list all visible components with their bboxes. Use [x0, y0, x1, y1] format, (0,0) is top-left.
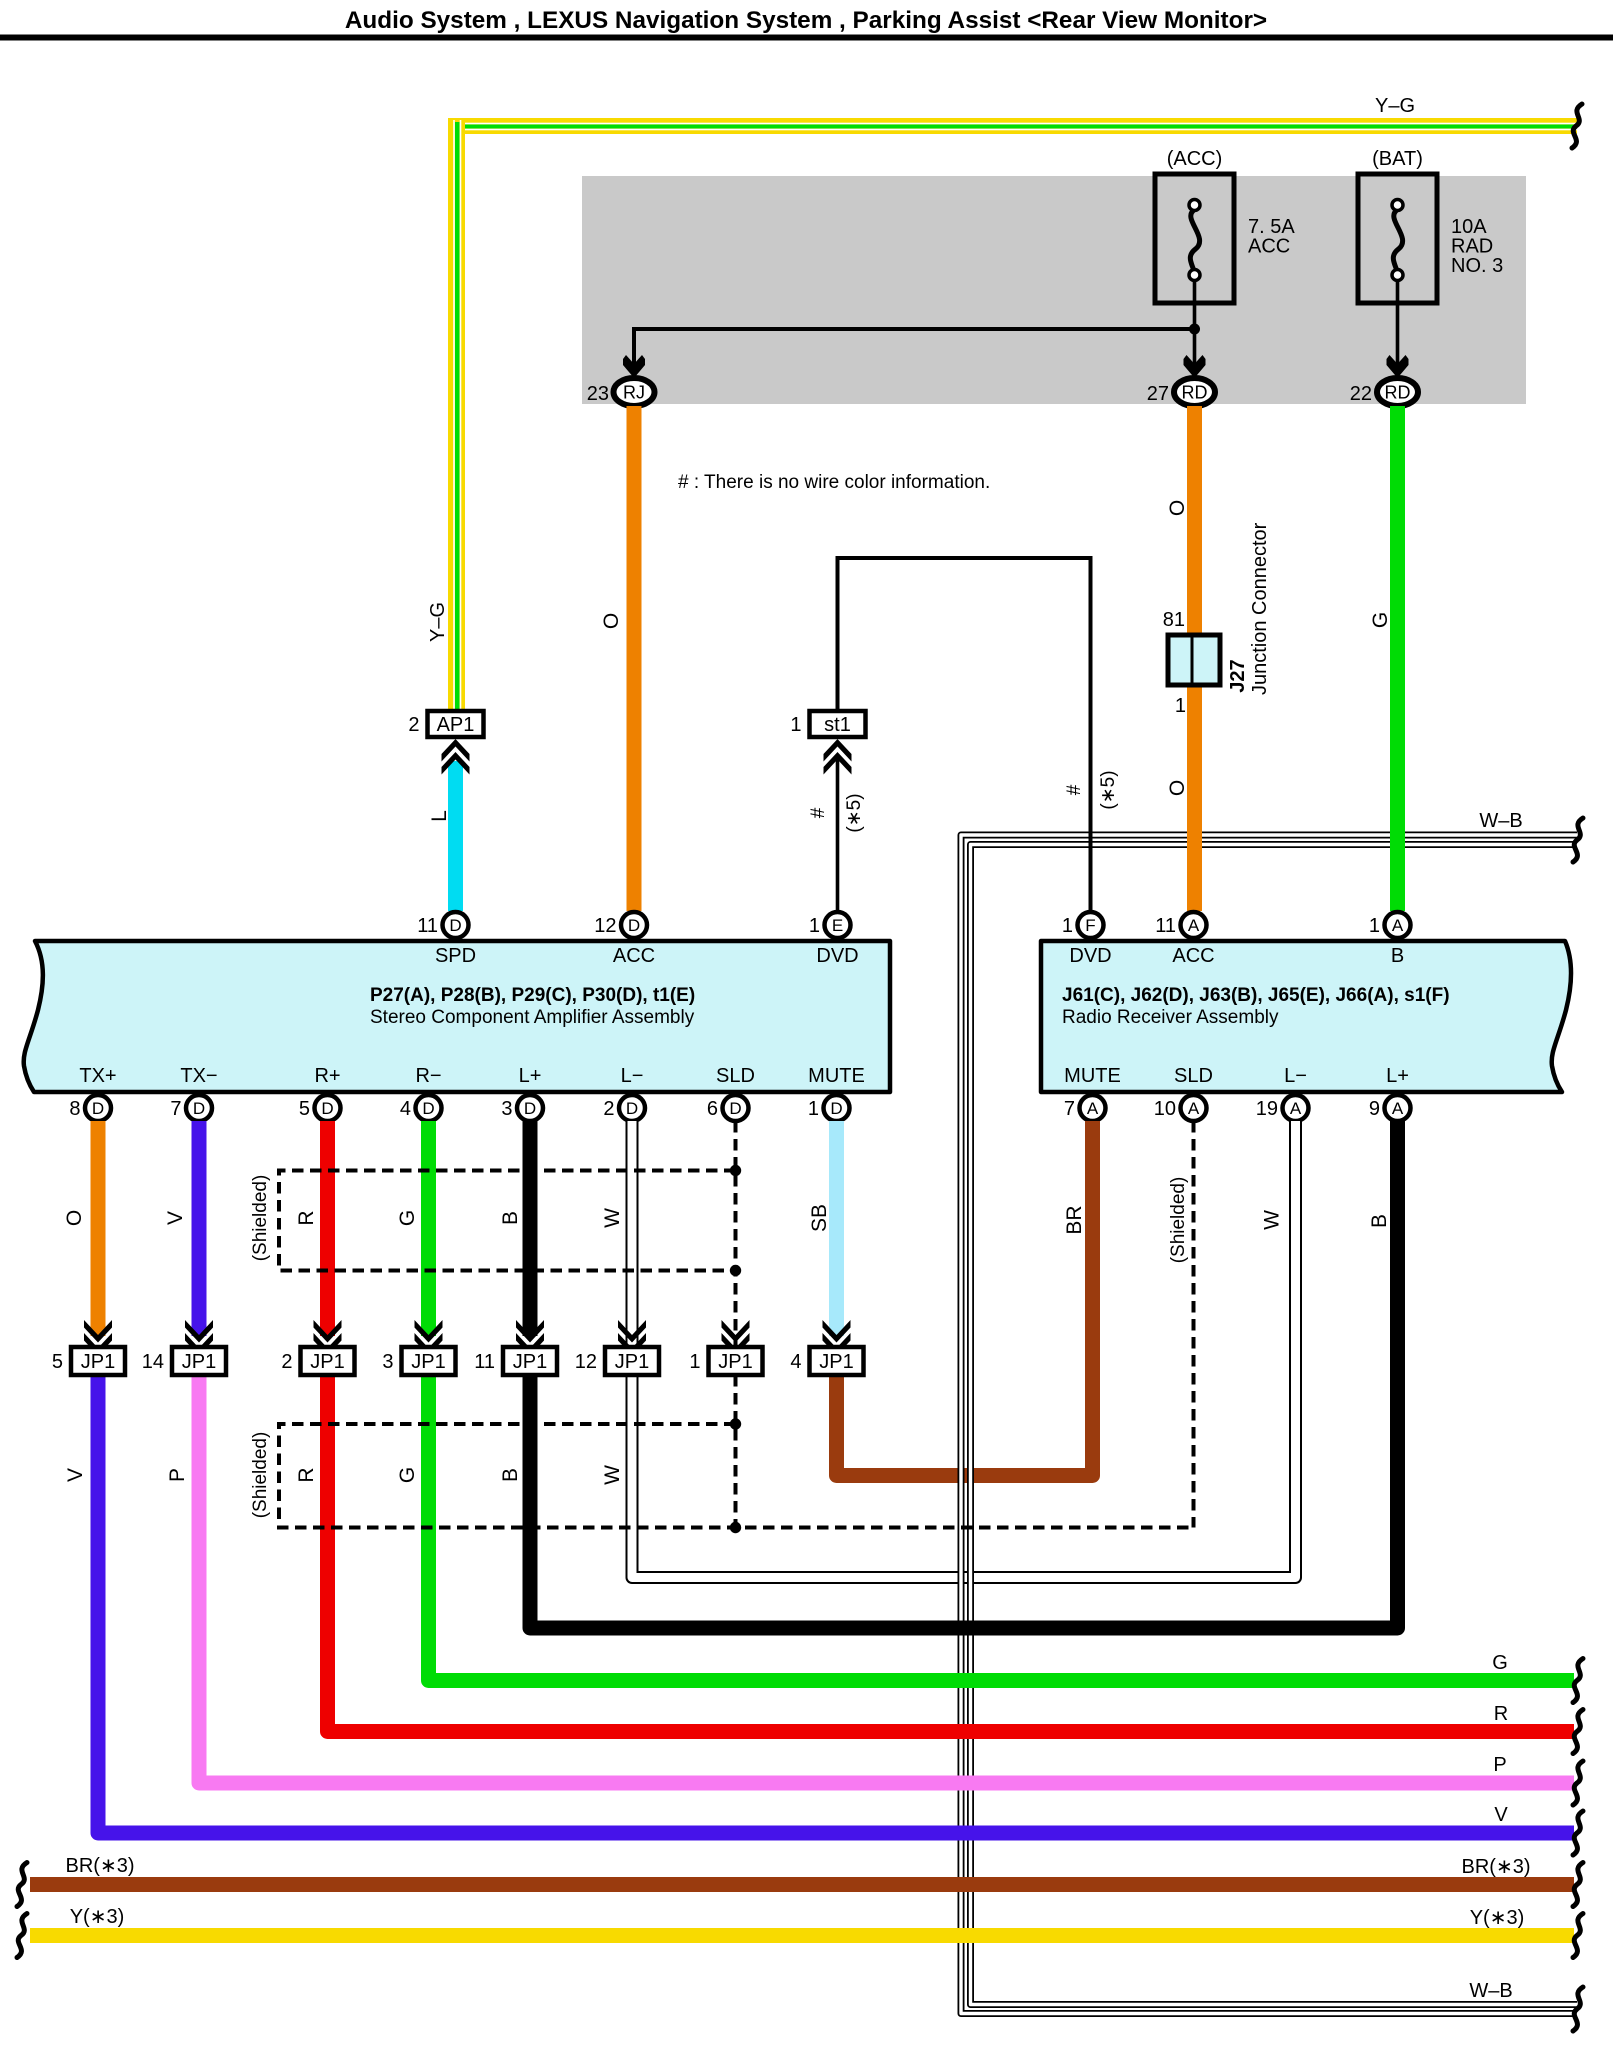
svg-text:W–B: W–B [1479, 810, 1522, 832]
svg-text:R: R [295, 1210, 318, 1225]
svg-text:W: W [1261, 1210, 1284, 1230]
wire G bus from JP1 3 [429, 1375, 1575, 1681]
svg-text:JP1: JP1 [718, 1351, 752, 1373]
svg-text:Y(∗3): Y(∗3) [1470, 1907, 1525, 1929]
arrows into AP1 [442, 739, 470, 762]
svg-text:R: R [295, 1467, 318, 1482]
svg-text:2: 2 [281, 1351, 292, 1373]
shield dashed box upper [279, 1171, 736, 1271]
svg-text:SB: SB [808, 1204, 831, 1232]
stereo component amplifier assembly box [24, 941, 890, 1092]
svg-text:RD: RD [1182, 383, 1208, 403]
svg-text:G: G [1369, 612, 1392, 628]
svg-text:SLD: SLD [716, 1065, 755, 1087]
wire O from RJ to amp ACC 12 [627, 406, 642, 911]
svg-text:4: 4 [400, 1098, 411, 1120]
arrows into JP1 3 [415, 1320, 443, 1343]
svg-text:TX−: TX− [180, 1065, 217, 1087]
svg-text:ACC: ACC [1248, 236, 1290, 258]
svg-text:2: 2 [408, 714, 419, 736]
svg-text:A: A [1087, 1099, 1099, 1118]
svg-text:ACC: ACC [613, 945, 655, 967]
wire O from RD27 through J27 to radio ACC 11 [1187, 406, 1202, 911]
svg-text:D: D [321, 1099, 333, 1118]
wire W-B outer [961, 835, 1577, 2014]
pin 4 D [416, 1095, 442, 1121]
pin 7 A [1080, 1095, 1106, 1121]
wire G R- [421, 1121, 436, 1336]
wire SLD dashed amp 6 to JP1 1 [734, 1121, 738, 1347]
svg-text:DVD: DVD [816, 945, 858, 967]
svg-text:22: 22 [1350, 383, 1372, 405]
wire P bus from JP1 14 [199, 1375, 1574, 1783]
svg-text:R+: R+ [314, 1065, 340, 1087]
svg-text:RJ: RJ [623, 383, 645, 403]
svg-text:7: 7 [170, 1098, 181, 1120]
wire Y-G from AP1 up and across to right edge [448, 118, 1577, 134]
arrows into st1 [824, 739, 852, 762]
svg-text:P: P [166, 1468, 189, 1482]
arrows into JP1 12 [618, 1320, 646, 1343]
svg-text:W: W [601, 1208, 624, 1228]
svg-text:2: 2 [603, 1098, 614, 1120]
svg-text:A: A [1188, 916, 1200, 935]
svg-text:23: 23 [587, 383, 609, 405]
svg-text:L+: L+ [1386, 1065, 1409, 1087]
svg-text:D: D [626, 1099, 638, 1118]
connector 14 JP1 [172, 1347, 226, 1375]
pin 9 A [1385, 1095, 1411, 1121]
wire BR from JP1 4 to radio MUTE 7 [837, 1121, 1093, 1476]
svg-text:A: A [1392, 1099, 1404, 1118]
connector 3 JP1 [402, 1347, 456, 1375]
connector 22 RD [1377, 378, 1418, 406]
wire W from JP1 12 to radio L- 19 [632, 1121, 1296, 1578]
wire R R+ [320, 1121, 335, 1336]
wire V TX- [192, 1121, 207, 1336]
arrows into JP1 1 [722, 1320, 750, 1343]
connector 27 RD [1174, 378, 1215, 406]
wire V bus from JP1 5 [98, 1375, 1574, 1833]
svg-text:1: 1 [808, 1098, 819, 1120]
connector 4 JP1 [810, 1347, 864, 1375]
svg-text:JP1: JP1 [819, 1351, 853, 1373]
svg-text:G: G [1492, 1652, 1508, 1674]
svg-text:L−: L− [1284, 1065, 1307, 1087]
svg-text:MUTE: MUTE [808, 1065, 865, 1087]
svg-text:Y–G: Y–G [1375, 95, 1415, 117]
svg-text:(∗5): (∗5) [1098, 770, 1119, 809]
svg-text:JP1: JP1 [81, 1351, 115, 1373]
svg-text:P: P [1493, 1754, 1506, 1776]
arrow into RD 22 [1387, 355, 1409, 378]
svg-text:81: 81 [1163, 609, 1185, 631]
svg-text:D: D [92, 1099, 104, 1118]
connector 12 JP1 [605, 1347, 659, 1375]
svg-text:B: B [499, 1211, 522, 1225]
pin 11 D (SPD) [443, 912, 469, 938]
svg-text:L: L [428, 810, 451, 822]
svg-text:D: D [422, 1099, 434, 1118]
svg-text:D: D [193, 1099, 205, 1118]
svg-text:O: O [1166, 780, 1189, 796]
svg-text:#: # [808, 807, 829, 818]
pin 12 D (ACC) [621, 912, 647, 938]
svg-text:W–B: W–B [1469, 1980, 1512, 2002]
svg-text:BR: BR [1063, 1205, 1086, 1234]
svg-text:D: D [449, 916, 461, 935]
svg-text:J27: J27 [1227, 659, 1249, 692]
svg-text:R−: R− [415, 1065, 441, 1087]
svg-text:1: 1 [790, 714, 801, 736]
svg-text:A: A [1392, 916, 1404, 935]
svg-text:1: 1 [689, 1351, 700, 1373]
wire SLD dashed JP1 1 down [734, 1375, 738, 1528]
svg-text:SPD: SPD [435, 945, 476, 967]
svg-text:RD: RD [1385, 383, 1411, 403]
svg-text:R: R [1494, 1703, 1508, 1725]
svg-text:(ACC): (ACC) [1167, 148, 1223, 170]
svg-text:27: 27 [1147, 383, 1169, 405]
junction connector J27 [1168, 635, 1220, 685]
svg-text:Audio System , LEXUS Navigatio: Audio System , LEXUS Navigation System ,… [345, 7, 1267, 34]
pin 1 E (DVD amp) [825, 912, 851, 938]
svg-text:O: O [600, 613, 623, 629]
tear symbol W-B right bottom [1573, 1987, 1583, 2031]
svg-text:JP1: JP1 [310, 1351, 344, 1373]
svg-text:MUTE: MUTE [1064, 1065, 1121, 1087]
connector 2 AP1 [428, 711, 484, 737]
arrows into JP1 14 [185, 1320, 213, 1343]
svg-text:J61(C), J62(D), J63(B), J65(E): J61(C), J62(D), J63(B), J65(E), J66(A), … [1062, 985, 1450, 1006]
svg-text:D: D [628, 916, 640, 935]
svg-text:3: 3 [501, 1098, 512, 1120]
svg-text:(Shielded): (Shielded) [250, 1175, 271, 1262]
svg-text:O: O [63, 1210, 86, 1226]
radio receiver assembly box [1041, 941, 1571, 1092]
wire L from amp SPD 11 to AP1 [448, 761, 463, 911]
svg-text:12: 12 [594, 915, 616, 937]
svg-text:BR(∗3): BR(∗3) [1462, 1856, 1531, 1878]
svg-text:#: # [1064, 784, 1085, 795]
arrows into JP1 4 [823, 1320, 851, 1343]
svg-text:3: 3 [382, 1351, 393, 1373]
svg-text:Y(∗3): Y(∗3) [70, 1906, 125, 1928]
svg-text:1: 1 [1369, 915, 1380, 937]
svg-text:JP1: JP1 [411, 1351, 445, 1373]
svg-text:JP1: JP1 [513, 1351, 547, 1373]
svg-text:ACC: ACC [1172, 945, 1214, 967]
junction dot below ACC fuse [1189, 324, 1200, 335]
wire SB MUTE [829, 1121, 844, 1336]
svg-text:NO. 3: NO. 3 [1451, 255, 1503, 277]
svg-text:E: E [832, 916, 843, 935]
fuse tail lines [1193, 275, 1197, 366]
svg-text:B: B [1391, 945, 1404, 967]
pin 2 D [619, 1095, 645, 1121]
wire O TX+ [91, 1121, 106, 1336]
svg-text:4: 4 [790, 1351, 801, 1373]
svg-text:W: W [601, 1465, 624, 1485]
svg-text:(BAT): (BAT) [1372, 148, 1423, 170]
arrow into RD 27 [1184, 355, 1206, 378]
wire W L- upper [626, 1121, 639, 1347]
svg-text:11: 11 [1155, 915, 1176, 937]
svg-text:JP1: JP1 [182, 1351, 216, 1373]
pin 8 D [85, 1095, 111, 1121]
svg-text:AP1: AP1 [437, 714, 475, 736]
tear symbol W-B right top [1573, 818, 1583, 862]
svg-text:6: 6 [707, 1098, 718, 1120]
wire B from JP1 11 to radio L+ 9 [530, 1121, 1398, 1628]
svg-text:Y–G: Y–G [427, 602, 449, 642]
svg-text:V: V [164, 1211, 187, 1225]
svg-text:G: G [396, 1210, 419, 1226]
wire BR(*3) bus [30, 1877, 1574, 1892]
svg-text:Radio Receiver Assembly: Radio Receiver Assembly [1062, 1007, 1279, 1028]
connector 1 JP1 [709, 1347, 763, 1375]
wire G from RD22 to radio B 1 [1390, 406, 1405, 911]
svg-text:Stereo Component Amplifier Ass: Stereo Component Amplifier Assembly [370, 1007, 695, 1028]
wire # (*5) amp DVD E to st1 [836, 757, 840, 911]
connector 11 JP1 [503, 1347, 557, 1375]
pin 7 D [186, 1095, 212, 1121]
svg-text:# : There is no wire color inf: # : There is no wire color information. [678, 472, 990, 493]
pin 19 A [1283, 1095, 1309, 1121]
svg-text:L−: L− [621, 1065, 644, 1087]
pin 10 A [1181, 1095, 1207, 1121]
pin 1 D [824, 1095, 850, 1121]
svg-text:V: V [64, 1468, 87, 1482]
svg-text:11: 11 [417, 915, 438, 937]
pin 5 D [315, 1095, 341, 1121]
connector 1 st1 [810, 711, 866, 737]
svg-text:1: 1 [809, 915, 820, 937]
svg-text:B: B [499, 1468, 522, 1482]
svg-text:DVD: DVD [1069, 945, 1111, 967]
tear symbol Y-G right end [1572, 104, 1582, 148]
pin 11 A (ACC radio) [1181, 912, 1207, 938]
wire Y(*3) bus [30, 1928, 1574, 1943]
shield dashed box lower [279, 1424, 1194, 1528]
svg-text:10: 10 [1154, 1098, 1176, 1120]
svg-text:(Shielded): (Shielded) [250, 1432, 271, 1519]
arrows into JP1 2 [314, 1320, 342, 1343]
pin 1 F (DVD radio) [1078, 912, 1104, 938]
svg-text:BR(∗3): BR(∗3) [66, 1855, 135, 1877]
svg-text:L+: L+ [519, 1065, 542, 1087]
svg-text:A: A [1188, 1099, 1200, 1118]
wire SLD dashed radio 10 down [1192, 1121, 1196, 1528]
connector 5 JP1 [71, 1347, 125, 1375]
arrows into JP1 11 [516, 1320, 544, 1343]
wire W-B verticals over crossing wires [958, 1445, 965, 1995]
svg-text:5: 5 [52, 1351, 63, 1373]
svg-text:D: D [729, 1099, 741, 1118]
svg-text:19: 19 [1256, 1098, 1278, 1120]
svg-text:12: 12 [575, 1351, 597, 1373]
wire B L+ [523, 1121, 538, 1336]
svg-text:G: G [396, 1467, 419, 1483]
svg-text:Junction Connector: Junction Connector [1249, 522, 1271, 695]
svg-text:14: 14 [142, 1351, 164, 1373]
wire from fuse junction to RJ [634, 329, 1195, 366]
svg-text:P27(A), P28(B), P29(C), P30(D): P27(A), P28(B), P29(C), P30(D), t1(E) [370, 985, 695, 1006]
wire R bus from JP1 2 [328, 1375, 1575, 1732]
svg-text:(∗5): (∗5) [844, 793, 865, 832]
svg-text:D: D [830, 1099, 842, 1118]
svg-text:5: 5 [299, 1098, 310, 1120]
svg-text:1: 1 [1062, 915, 1073, 937]
svg-text:SLD: SLD [1174, 1065, 1213, 1087]
tear symbols right ends of G R P V buses [1573, 1659, 1583, 1703]
svg-text:A: A [1290, 1099, 1302, 1118]
svg-text:8: 8 [69, 1098, 80, 1120]
pin 3 D [517, 1095, 543, 1121]
svg-text:V: V [1494, 1804, 1508, 1826]
svg-text:11: 11 [474, 1351, 495, 1373]
wire # (*5) from st1 to radio DVD F [838, 558, 1091, 911]
tear symbols bus ends [17, 1863, 27, 1907]
svg-text:(Shielded): (Shielded) [1168, 1177, 1189, 1264]
svg-text:1: 1 [1175, 695, 1186, 717]
pin 1 A (B radio) [1385, 912, 1411, 938]
connector 2 JP1 [301, 1347, 355, 1375]
svg-text:D: D [524, 1099, 536, 1118]
svg-text:7: 7 [1064, 1098, 1075, 1120]
svg-text:9: 9 [1369, 1098, 1380, 1120]
arrow into RJ [623, 355, 645, 378]
wire W-B inner [971, 845, 1578, 2005]
svg-text:F: F [1085, 916, 1095, 935]
svg-text:JP1: JP1 [615, 1351, 649, 1373]
svg-text:TX+: TX+ [79, 1065, 116, 1087]
svg-text:B: B [1368, 1214, 1391, 1228]
arrows into JP1 5 [84, 1320, 112, 1343]
connector 23 RJ [614, 378, 655, 406]
svg-text:O: O [1166, 500, 1189, 516]
gray junction-block area [582, 176, 1526, 404]
svg-text:st1: st1 [824, 714, 851, 736]
pin 6 D [723, 1095, 749, 1121]
